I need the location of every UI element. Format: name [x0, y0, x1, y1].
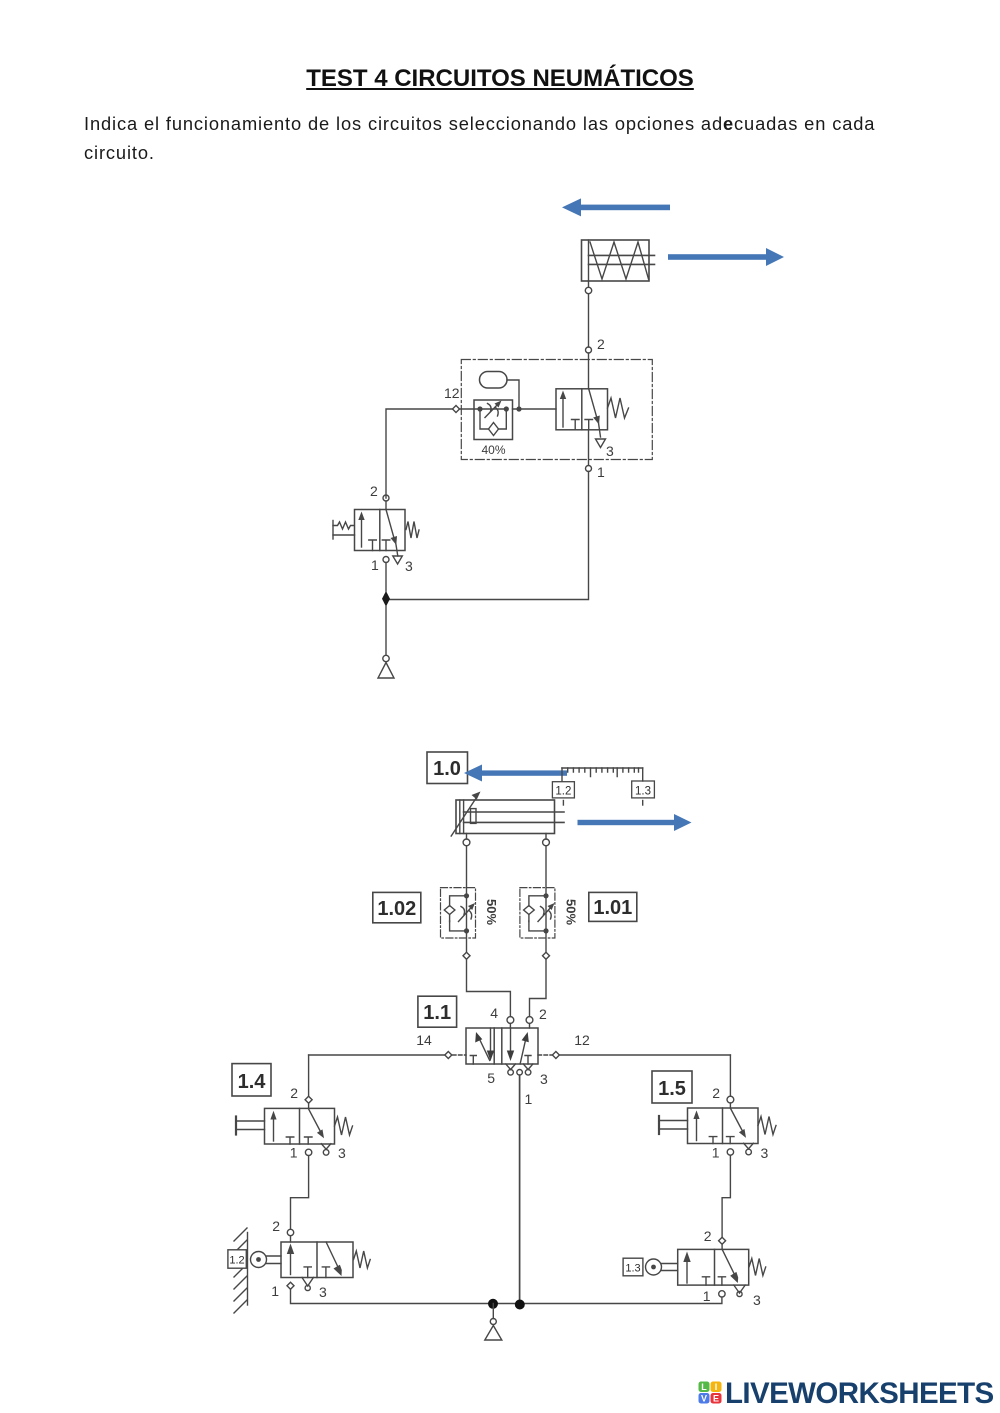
wire 14 down to valve 1.4 [308, 1055, 310, 1096]
valve V1 right cell path 2-3 [386, 510, 398, 557]
valve 1.3 spring [749, 1259, 766, 1276]
valve 1.1 5/2 body [466, 1028, 538, 1064]
valve 1.3 right cell path [722, 1249, 738, 1283]
valve V1 spring return [406, 522, 419, 539]
valve 1.5 left cell arrow [693, 1110, 699, 1140]
wire valve 1.4 port1 down [291, 1156, 309, 1229]
junction node right [515, 1300, 525, 1310]
port 1 connector left valve [383, 557, 389, 563]
label box 1.1 [418, 996, 457, 1027]
valve 1.3 right cell blocked T [718, 1277, 725, 1285]
svg-text:1.2: 1.2 [555, 786, 571, 798]
svg-text:3: 3 [753, 1292, 761, 1308]
svg-text:1: 1 [271, 1283, 279, 1299]
wire to port 4 [467, 959, 511, 1016]
svg-text:1: 1 [290, 1145, 298, 1161]
throttle arrow [485, 401, 502, 418]
valve 1.2 port 1 connector [287, 1282, 294, 1289]
cylinder right port [543, 839, 550, 846]
cylinder 1.0 double acting [451, 792, 564, 837]
wire left port down [466, 834, 468, 840]
svg-text:1.3: 1.3 [625, 1263, 640, 1275]
svg-text:1.1: 1.1 [423, 1002, 451, 1024]
svg-text:2: 2 [290, 1085, 298, 1101]
wire valve 1.5 port1 down [722, 1155, 730, 1237]
label box 1.5 [652, 1071, 692, 1103]
junction node left [488, 1299, 498, 1309]
label box 1.02 [373, 892, 421, 922]
valve V2 right cell blocked port T [585, 420, 593, 430]
valve 1.2 roller [251, 1252, 282, 1268]
valve 1.4 spring [335, 1117, 353, 1135]
cylinder left port [463, 839, 470, 846]
wire through throttle [480, 408, 506, 410]
svg-text:12: 12 [444, 385, 460, 401]
valve 1.4 left cell arrow [270, 1111, 276, 1141]
exhaust port 3 [525, 1070, 531, 1076]
svg-text:50%: 50% [484, 899, 499, 925]
valve 1.2 3/2 roller body [281, 1242, 353, 1278]
liveworksheets logo text [725, 1377, 994, 1411]
svg-text:12: 12 [574, 1032, 590, 1048]
wire port1 to junction [385, 563, 387, 592]
svg-text:4: 4 [490, 1005, 498, 1021]
label box 1.2 (position mark) [552, 782, 574, 805]
valve V1 actuator (manual with spring) [333, 521, 355, 540]
wire valve to port 1 [588, 430, 590, 466]
valve 1.3 left cell arrow [683, 1252, 690, 1284]
air supply source triangle [378, 663, 394, 679]
valve 1.3 roller [646, 1259, 678, 1275]
svg-text:1.3: 1.3 [635, 786, 651, 798]
label box 1.3 (position mark) [632, 781, 655, 805]
valve 1.4 port 3 [323, 1150, 329, 1156]
svg-text:1: 1 [525, 1091, 533, 1107]
flow control 1.02 [444, 893, 475, 933]
wire cylinder to port 2 [588, 281, 590, 287]
wire into valve 1.3 [721, 1244, 723, 1249]
valve 1.4 port 1 [305, 1149, 311, 1155]
valve 1.4 pushbutton [236, 1117, 265, 1135]
svg-text:L: L [701, 1382, 707, 1392]
blue arrow right (cylinder extend) [668, 248, 784, 266]
wire to port 2 [530, 959, 547, 1016]
label box 1.2 valve [228, 1250, 246, 1268]
valve V2 right cell path 2-3 [589, 389, 601, 437]
valve 1.3 left cell blocked T [702, 1277, 709, 1285]
valve 1.5 spring [758, 1117, 776, 1135]
valve 1.5 port 2 connector [727, 1096, 734, 1103]
svg-text:I: I [715, 1382, 718, 1392]
svg-text:5: 5 [487, 1070, 495, 1086]
svg-text:3: 3 [761, 1145, 769, 1161]
throttle bypass loop [480, 409, 489, 429]
CIRCUIT1 [333, 198, 784, 678]
valve 1.4 left cell blocked T [286, 1137, 294, 1144]
pilot wire from left valve [386, 409, 453, 498]
svg-text:1.0: 1.0 [433, 758, 461, 780]
label box 1.01 [589, 892, 637, 921]
svg-text:2: 2 [597, 336, 605, 352]
flow control 1.01 enclosure [520, 888, 555, 938]
svg-text:2: 2 [539, 1006, 547, 1022]
svg-text:3: 3 [338, 1145, 346, 1161]
valve V1 right cell blocked T [382, 540, 390, 551]
node at reservoir junction [516, 406, 521, 411]
svg-text:1.02: 1.02 [377, 898, 416, 920]
label box 1.4 [232, 1064, 271, 1096]
port 2 connector [526, 1017, 533, 1024]
port 2 connector left valve [383, 495, 389, 501]
wire valve 1.3 to supply bus [520, 1297, 722, 1303]
valve 1.5 left cell blocked T [709, 1137, 717, 1144]
wire throttle to pilot valve [513, 408, 557, 410]
svg-text:1.01: 1.01 [593, 897, 632, 919]
svg-text:V: V [701, 1394, 707, 1404]
valve 1.3 port 1 connector [719, 1291, 725, 1297]
valve 1.1 pilot 12 [538, 1052, 730, 1059]
valve 1.5 port 1 [727, 1149, 733, 1155]
valve 1.3 port 2 connector [719, 1237, 726, 1244]
svg-text:E: E [713, 1394, 719, 1404]
wire into valve 1.4 [308, 1103, 310, 1108]
blue arrow right (extend) [578, 814, 692, 831]
node left [477, 406, 482, 411]
valve 1.1 pilot 14 [309, 1052, 466, 1059]
valve V1 manual 3/2 body [355, 510, 406, 551]
valve 1.2 left cell arrow [287, 1244, 294, 1275]
paragraph [84, 110, 914, 167]
measuring ruler [562, 768, 643, 781]
wire 1.02 down [466, 931, 468, 952]
wires ports into valve [510, 1023, 529, 1028]
wire 1.01 down [545, 931, 547, 952]
CIRCUIT2 [228, 752, 776, 1340]
svg-text:1: 1 [597, 464, 605, 480]
valve V2 pilot 3/2 body [556, 389, 608, 430]
svg-text:3: 3 [319, 1284, 327, 1300]
valve 1.3 3/2 roller body [678, 1249, 749, 1285]
svg-text:1.4: 1.4 [238, 1071, 267, 1093]
svg-text:1: 1 [712, 1145, 720, 1161]
valve 1.1 left cell flows [470, 1028, 494, 1064]
port 4 connector [507, 1017, 514, 1024]
liveworksheets logo icon [698, 1381, 722, 1404]
svg-text:2: 2 [272, 1218, 280, 1234]
wall mount hatching valve 1.2 [234, 1228, 248, 1313]
valve 1.2 left cell blocked T [304, 1267, 311, 1278]
flow control 1.01 [524, 893, 555, 933]
valve 1.5 right cell blocked T [727, 1137, 735, 1144]
port 2 connector [586, 347, 592, 353]
valve 1.1 exhaust funnels [506, 1064, 533, 1070]
valve 1.2 right cell blocked T [322, 1267, 329, 1278]
wire valve 1.2 to supply bus [291, 1289, 494, 1303]
node right [504, 406, 509, 411]
valve V2 left cell arrow [560, 391, 566, 428]
connector 12 diamond [453, 406, 460, 413]
port 1 connector [586, 466, 592, 472]
valve 1.2 right cell path [326, 1242, 342, 1276]
valve 1.2 spring [354, 1251, 371, 1268]
blue arrow left (cylinder retract) [562, 198, 670, 216]
valve 1.2 exhaust 3 funnel [302, 1278, 313, 1291]
wire junction to source [492, 1304, 494, 1319]
exhaust port 5 [508, 1070, 514, 1076]
source port circle [383, 655, 389, 661]
svg-text:1: 1 [371, 557, 379, 573]
wire connector to throttle box [460, 408, 481, 410]
valve V1 exhaust 3 [393, 556, 403, 564]
svg-text:50%: 50% [564, 899, 579, 925]
flow control 1.02 enclosure [441, 888, 476, 938]
wire port2 to valve V1 [385, 501, 387, 510]
connector diamond right [543, 952, 550, 959]
valve 1.4 right cell blocked T [305, 1137, 313, 1144]
junction node diamond [382, 591, 390, 607]
valve 1.5 port 3 [746, 1149, 752, 1155]
check valve diamond [489, 423, 499, 436]
valve 1.5 pushbutton [659, 1116, 688, 1134]
valve 1.5 3/2 pushbutton body [688, 1108, 759, 1144]
valve 1.1 right cell flows [507, 1028, 531, 1064]
flow control box 40% [474, 400, 513, 440]
port under cylinder [585, 287, 591, 293]
wire bus between junctions [490, 1303, 523, 1305]
svg-text:1.5: 1.5 [658, 1078, 686, 1100]
valve 1.4 port 2 connector [305, 1096, 312, 1103]
valve 1.2 port 2 connector [287, 1229, 293, 1235]
wire right port down [545, 834, 547, 840]
valve V1 left cell arrow [358, 512, 364, 548]
label box 1.0 [427, 752, 468, 784]
wire reservoir to throttle [507, 380, 519, 408]
title [0, 65, 1000, 93]
svg-text:40%: 40% [481, 443, 505, 457]
wire into valve 1.5 [729, 1103, 731, 1108]
valve V2 left cell blocked port T [572, 420, 580, 430]
blue arrow left (retract) [464, 765, 567, 782]
valve 1.4 3/2 pushbutton body [265, 1108, 335, 1144]
svg-text:3: 3 [606, 443, 614, 459]
svg-text:1: 1 [703, 1288, 711, 1304]
port 1 circle [517, 1070, 523, 1076]
svg-text:14: 14 [416, 1032, 432, 1048]
valve V1 left cell blocked T [369, 540, 377, 551]
valve V2 exhaust 3 [596, 439, 606, 448]
svg-text:1.2: 1.2 [229, 1255, 244, 1267]
cylinder 1.0 single-acting spring return [582, 240, 655, 281]
connector diamond left [463, 952, 470, 959]
svg-text:3: 3 [540, 1071, 548, 1087]
svg-text:2: 2 [370, 483, 378, 499]
timer dash-dot enclosure [461, 360, 652, 460]
valve 1.3 exhaust 3 funnel [734, 1285, 745, 1297]
air supply source triangle [485, 1326, 502, 1341]
valve V2 spring return [608, 398, 629, 418]
source port circle [490, 1319, 496, 1325]
valve 1.4 right cell path 2-3 [308, 1108, 331, 1149]
svg-text:2: 2 [712, 1085, 720, 1101]
wire into valve 1.2 [290, 1236, 292, 1242]
valve 1.5 right cell path 2-3 [730, 1108, 753, 1149]
wire port1 down to supply line [386, 472, 589, 600]
svg-text:3: 3 [405, 558, 413, 574]
svg-text:2: 2 [704, 1228, 712, 1244]
label box 1.3 valve [623, 1258, 643, 1276]
wire port2 to valve [588, 353, 590, 389]
wire port1 down to supply [519, 1075, 521, 1304]
wire 12 down to valve 1.5 [729, 1055, 731, 1096]
air reservoir [480, 372, 508, 389]
wire junction to source [385, 606, 387, 655]
